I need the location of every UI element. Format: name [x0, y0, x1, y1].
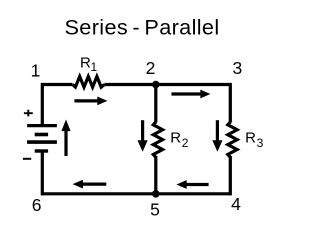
wire: middle bottom stub (R2 to node5) [154, 156, 157, 194]
svg-text:1: 1 [31, 60, 41, 80]
current arrow left on bottom wire node5-6 [73, 180, 107, 189]
svg-text:4: 4 [231, 194, 241, 214]
svg-text:2: 2 [182, 136, 189, 150]
wire: right bottom stub (R3 to node4) [229, 156, 232, 195]
svg-text:Series - Parallel: Series - Parallel [64, 15, 219, 40]
node 5 junction dot [152, 190, 160, 198]
resistor R2 zigzag [153, 122, 162, 157]
current arrow down beside R3 [212, 120, 222, 152]
current arrow up beside battery [61, 120, 70, 157]
svg-text:R: R [245, 130, 256, 147]
svg-text:1: 1 [91, 60, 98, 74]
battery B1 plates [27, 126, 57, 151]
wire: top from node1 corner to R1 [42, 83, 72, 86]
svg-text:R: R [80, 54, 91, 71]
wire: right top stub (node3 to R3) [229, 83, 232, 123]
svg-text:6: 6 [32, 195, 42, 215]
label R3 [245, 130, 264, 150]
current arrow down beside R2 [138, 120, 148, 152]
current arrow left on bottom wire node4-5 [176, 180, 208, 189]
svg-text:5: 5 [150, 199, 160, 219]
current arrow right on top wire node2-3 [171, 90, 210, 99]
battery - terminal sign [23, 158, 31, 160]
current arrow right under R1 [74, 97, 107, 106]
battery + terminal sign [24, 110, 33, 117]
svg-text:R: R [170, 130, 181, 147]
svg-text:3: 3 [257, 136, 264, 150]
wire: bottom from node6 corner to node4 corner [42, 192, 230, 195]
label R1 [80, 54, 98, 74]
resistor R3 zigzag [228, 122, 237, 157]
resistor R1 zigzag [73, 77, 105, 88]
svg-text:2: 2 [146, 58, 156, 78]
node 2 junction dot [152, 81, 160, 89]
wire: top from R1 to node3 corner [104, 83, 230, 86]
wire: left top stub (node1 to battery +) [41, 83, 44, 125]
label R2 [170, 130, 189, 150]
wire: left bottom stub (battery - to node6) [41, 151, 44, 195]
wire: middle top stub (node2 to R2) [154, 85, 157, 123]
svg-text:3: 3 [233, 58, 243, 78]
